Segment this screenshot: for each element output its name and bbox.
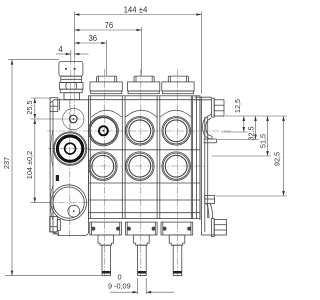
svg-text:237: 237 bbox=[2, 157, 11, 169]
svg-text:12,5: 12,5 bbox=[233, 99, 242, 113]
svg-text:76: 76 bbox=[105, 21, 114, 30]
svg-text:92,5: 92,5 bbox=[273, 152, 282, 166]
svg-text:51,5: 51,5 bbox=[259, 134, 268, 148]
svg-text:9 -0,09: 9 -0,09 bbox=[108, 282, 131, 291]
svg-text:4: 4 bbox=[58, 45, 63, 54]
svg-text:104 ±0,2: 104 ±0,2 bbox=[25, 151, 34, 179]
svg-text:32,5: 32,5 bbox=[247, 126, 256, 140]
svg-text:36: 36 bbox=[88, 34, 97, 43]
svg-text:144 ±4: 144 ±4 bbox=[124, 5, 148, 14]
svg-text:25,5: 25,5 bbox=[25, 100, 34, 114]
svg-text:0: 0 bbox=[117, 273, 121, 282]
